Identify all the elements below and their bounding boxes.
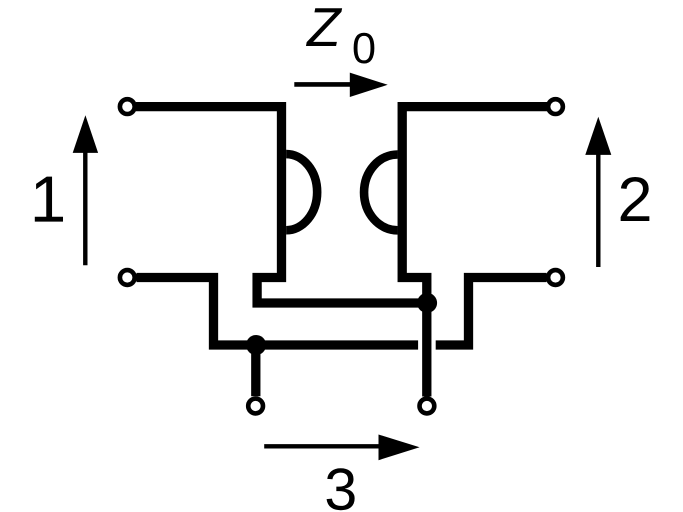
label 1 [35,177,63,222]
label 3 [327,468,355,510]
terminal port 1 top [120,99,135,114]
terminal port 3 left [248,399,263,414]
terminal port 2 top [548,99,563,114]
node B junction dot [246,335,266,355]
terminal port 1 bottom [120,270,135,285]
terminal port 3 right [420,399,435,414]
label 2 [621,177,650,221]
wire node B down to port3 left terminal [251,345,260,396]
label Z0 [306,8,374,63]
wire port2-top to right vertical and jog down to port3 terminal [402,107,547,397]
arrow port 2 voltage [585,117,611,267]
terminal port 2 bottom [548,270,563,285]
wire port1-top to left vertical and jog to node A [136,107,427,303]
winding L2 (right arc) [364,155,398,231]
arrow port 3 current [264,435,419,461]
wire port1-bottom to bottom bus (left part, breaks before crossover) [137,278,419,346]
arrow Z0 direction [294,73,387,97]
winding L1 (left arc) [286,154,317,230]
wire bottom bus right part up to port2-bottom [436,278,547,346]
node A junction dot [417,293,437,313]
arrow port 1 voltage [73,115,98,265]
